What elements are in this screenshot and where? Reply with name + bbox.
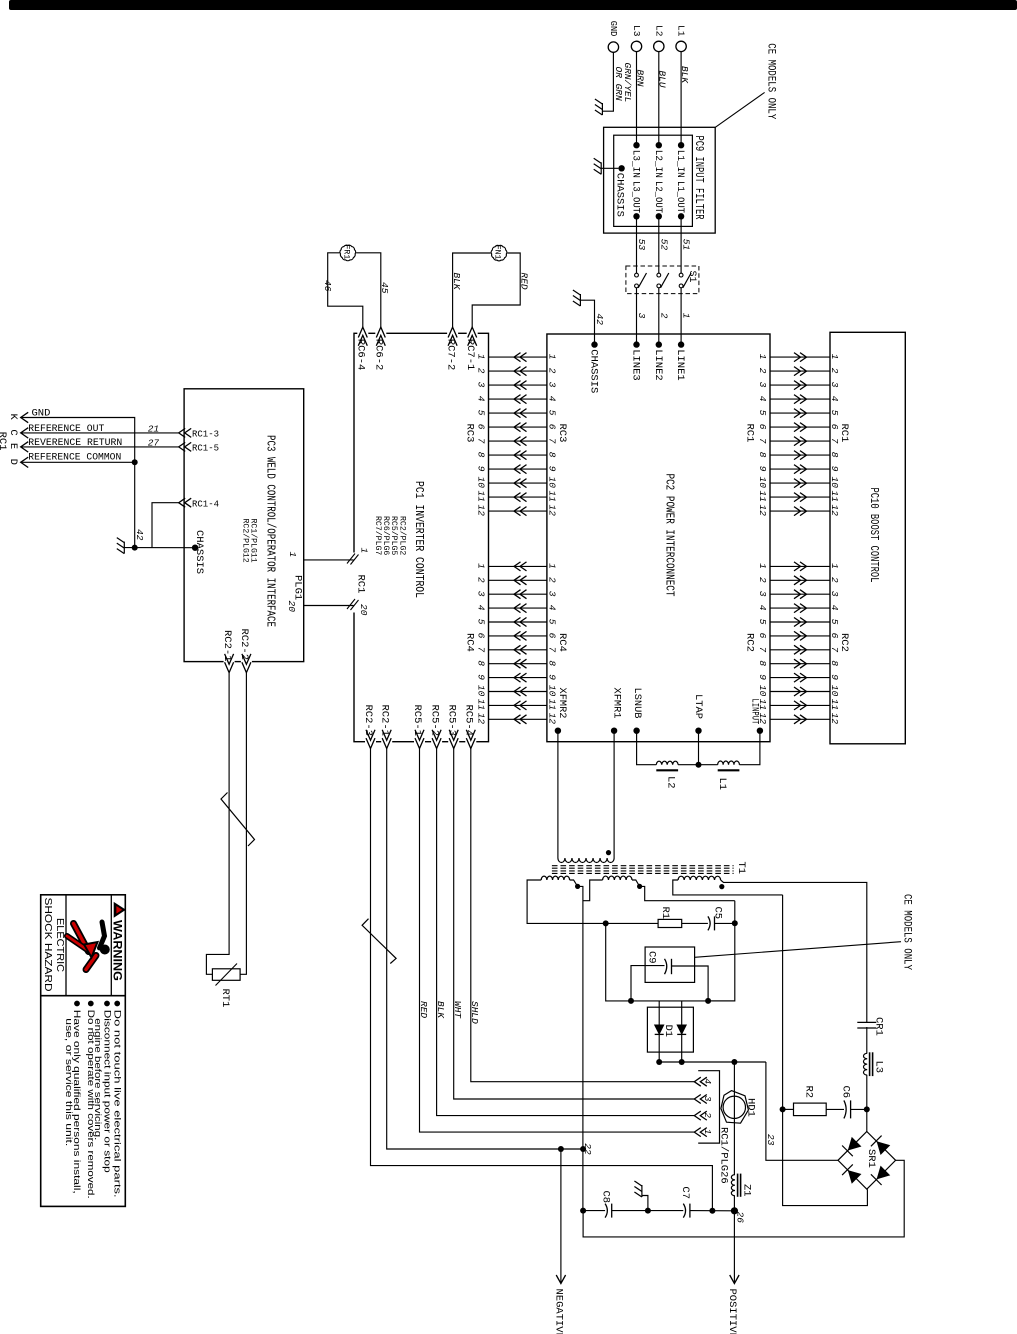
ground (PC3 chassis) (123, 542, 125, 554)
svg-text:6: 6 (757, 424, 768, 430)
connector RC6-2 chevron (376, 327, 385, 346)
wire RC4 pin 9 (PC1-PC2) (489, 677, 547, 679)
svg-text:Disconnect input power or stop: Disconnect input power or stop (102, 1010, 112, 1173)
pin LSNUB (633, 728, 639, 734)
chevron RC3 pin 6 (514, 423, 527, 432)
connector RC2-1 chevron (PC1) (382, 730, 391, 749)
svg-text:9: 9 (476, 466, 487, 472)
T1 secondary winding 1 (541, 876, 569, 880)
svg-text:10: 10 (476, 477, 487, 489)
warning triangle icon (114, 903, 125, 917)
PC10 BOOST CONTROL box (830, 332, 905, 744)
switch S1 dashed box (626, 266, 699, 294)
svg-text:C5: C5 (712, 907, 724, 920)
chevron RC1 pin 12 (794, 507, 807, 516)
wire RC3 pin 7 (PC1-PC2) (489, 440, 547, 442)
PC3 WELD CONTROL/OPERATOR INTERFACE box (184, 389, 304, 662)
inductor L1 (718, 761, 740, 765)
arrow (RC1 pin) (21, 457, 29, 467)
svg-text:3: 3 (829, 382, 840, 388)
svg-text:3: 3 (757, 382, 768, 388)
junction (HD1 tap) (731, 1059, 737, 1065)
svg-text:D1: D1 (662, 1025, 674, 1038)
svg-text:11: 11 (829, 491, 840, 502)
svg-text:XFMR1: XFMR1 (611, 688, 623, 719)
svg-text:5: 5 (476, 619, 487, 625)
junction (C7/RC2-3) (709, 1208, 715, 1214)
svg-text:7: 7 (757, 647, 768, 653)
wire R1 to C5 (682, 922, 708, 924)
svg-text:RC6-4: RC6-4 (355, 339, 367, 371)
chevron RC2 pin 6 (794, 631, 807, 640)
chevron RC1 pin 4 (794, 395, 807, 404)
svg-text:6: 6 (757, 633, 768, 639)
svg-text:RC1-4: RC1-4 (192, 498, 219, 509)
wire L3 to C6 node (866, 1075, 868, 1109)
pin LINPUT (757, 728, 763, 734)
svg-text:1: 1 (757, 563, 768, 569)
svg-text:10: 10 (546, 685, 557, 697)
resistor R1 (658, 919, 682, 927)
svg-text:CHASSIS: CHASSIS (588, 349, 600, 393)
wire C6 right lead (851, 1108, 867, 1110)
chevron RC2 pin 9 (794, 673, 807, 682)
wire RC1 pin 7 (PC2-PC10) (770, 440, 830, 442)
black header bar (page edge) (9, 0, 1017, 10)
ground (PC9 chassis) (600, 162, 602, 174)
svg-text:9: 9 (829, 466, 840, 472)
wire RC4 pin 7 (PC1-PC2) (489, 649, 547, 651)
polarity dot secondary 1 (575, 884, 580, 889)
chevron RC2 pin 10 (794, 687, 807, 696)
connector RC2-1 chevron (PC3) (225, 654, 234, 673)
svg-text:2: 2 (757, 577, 768, 583)
svg-text:8: 8 (546, 452, 557, 458)
wire net 23 to SR1 left (766, 1062, 838, 1160)
svg-text:RC3: RC3 (463, 424, 475, 443)
wire LTAP down (698, 731, 700, 765)
svg-text:10: 10 (476, 685, 487, 697)
wire FN1 RED to RC7-1 (472, 253, 520, 327)
terminal L3 (631, 41, 641, 51)
svg-text:3: 3 (702, 1096, 713, 1102)
wire RC1 pin 8 (PC2-PC10) (770, 454, 830, 456)
chevron RC1 pin 7 (794, 437, 807, 446)
svg-text:Do not touch live electrical p: Do not touch live electrical parts. (112, 1010, 122, 1198)
S1 contact pair and blade (657, 273, 661, 277)
svg-text:C: C (7, 429, 19, 435)
wire PC9 out 52 to S1 (658, 216, 660, 273)
svg-text:4: 4 (757, 605, 768, 611)
svg-text:PC1 INVERTER CONTROL: PC1 INVERTER CONTROL (412, 481, 426, 598)
wire ground to PC9 chassis pin (601, 167, 618, 169)
wire RC3 pin 6 (PC1-PC2) (489, 426, 547, 428)
svg-text:RC1/PLG11: RC1/PLG11 (249, 519, 259, 563)
wire RC1 pin 6 (PC2-PC10) (770, 426, 830, 428)
svg-text:11: 11 (546, 699, 557, 710)
connector RC7-2 chevron (448, 327, 457, 346)
wire RC4 pin 8 (PC1-PC2) (489, 663, 547, 665)
T1 secondary winding 2 (603, 876, 632, 880)
chevron RC4 pin 12 (514, 715, 527, 724)
wire RC1 pin 2 (PC2-PC10) (770, 370, 830, 372)
svg-text:use, or service this unit.: use, or service this unit. (64, 1018, 74, 1146)
connector RC7-1 chevron (468, 327, 477, 346)
svg-text:RC3: RC3 (556, 424, 568, 443)
svg-text:3: 3 (546, 591, 557, 597)
wire RC3 pin 12 (PC1-PC2) (489, 510, 547, 512)
chevron RC1 pin 5 (794, 409, 807, 418)
wire positive drop (733, 1211, 735, 1283)
warning bullet 2 (104, 1001, 110, 1007)
svg-text:2: 2 (476, 368, 487, 374)
svg-text:3: 3 (636, 313, 647, 319)
svg-text:3: 3 (757, 591, 768, 597)
svg-text:RC1: RC1 (743, 424, 755, 443)
chevron RC4 pin 2 (514, 576, 527, 585)
wire C6 to R2 (826, 1108, 844, 1110)
polarity dot secondary 3 (719, 884, 724, 889)
chevron HD1 pin 3 (694, 1095, 707, 1104)
svg-text:12: 12 (829, 505, 840, 517)
svg-text:10: 10 (757, 685, 768, 697)
cable break mark (RT1 pair) (221, 793, 255, 847)
gap in PC3 edge at RC2-1 (224, 660, 235, 663)
svg-text:9: 9 (757, 466, 768, 472)
svg-text:10: 10 (829, 477, 840, 489)
connector RC1-4 chevron (179, 498, 192, 507)
svg-text:CE MODELS ONLY: CE MODELS ONLY (900, 894, 912, 970)
wire RC3 pin 4 (PC1-PC2) (489, 398, 547, 400)
svg-text:RC4: RC4 (463, 633, 475, 652)
wire rail drop to C9 rail (606, 923, 735, 1001)
wire secondary1 left to snubber rail (527, 880, 606, 923)
resistor R2 (794, 1103, 827, 1116)
chevron RC4 pin 3 (514, 590, 527, 599)
svg-text:12: 12 (829, 713, 840, 725)
pin LINE3 (633, 341, 639, 347)
wire PC9 out 53 to S1 (636, 216, 638, 273)
junction (negative tap) (558, 1146, 564, 1152)
connector RC5-1 chevron (PC1) (415, 730, 424, 749)
svg-text:FN1: FN1 (493, 245, 502, 260)
wire RC4 pin 10 (PC1-PC2) (489, 691, 547, 693)
svg-text:L1_OUT: L1_OUT (674, 181, 685, 213)
svg-text:21: 21 (148, 423, 159, 434)
transformer T1 primary winding (558, 858, 614, 863)
wire RC1 pin 11 (PC2-PC10) (770, 496, 830, 498)
svg-text:2: 2 (757, 368, 768, 374)
wire D1 output rail (659, 1061, 766, 1063)
svg-text:CR1: CR1 (873, 1017, 885, 1036)
svg-text:5: 5 (757, 410, 768, 416)
PC9 inner box (614, 135, 693, 226)
svg-text:4: 4 (757, 396, 768, 402)
chevron RC4 pin 5 (514, 618, 527, 627)
svg-text:3: 3 (546, 382, 557, 388)
capacitor C8 (605, 1204, 607, 1218)
svg-text:CHASSIS: CHASSIS (193, 530, 205, 574)
junction (chassis node) (132, 545, 138, 551)
svg-text:8: 8 (757, 660, 768, 666)
junction (D1b out) (679, 1059, 685, 1065)
svg-text:1: 1 (702, 1129, 713, 1135)
connector RC6-4 chevron (358, 327, 367, 346)
warning label outer box (41, 895, 126, 1207)
chevron RC1 pin 11 (794, 493, 807, 502)
PC1 INVERTER CONTROL box (354, 333, 489, 741)
svg-text:PC9 INPUT FILTER: PC9 INPUT FILTER (692, 136, 705, 220)
svg-text:L2_IN: L2_IN (652, 150, 663, 178)
svg-text:BLU: BLU (657, 71, 668, 88)
wire L3 to PC9 (636, 52, 638, 146)
svg-text:2: 2 (702, 1112, 713, 1118)
svg-text:8: 8 (757, 452, 768, 458)
svg-text:R2: R2 (802, 1086, 814, 1099)
svg-text:C7: C7 (679, 1186, 691, 1199)
wire RC2 pin 3 (PC2-PC10) (770, 593, 830, 595)
pin L2_OUT (656, 213, 662, 219)
svg-text:1: 1 (757, 354, 768, 360)
wire GND to chassis node (21, 418, 135, 548)
diode SR1 upper-left (849, 1138, 861, 1150)
wire RC2-3 run (371, 749, 713, 1211)
svg-text:LSNUB: LSNUB (631, 688, 643, 719)
svg-text:12: 12 (476, 713, 487, 725)
svg-text:HD1: HD1 (744, 1098, 756, 1117)
wire RC4 pin 1 (PC1-PC2) (489, 565, 547, 567)
chevron RC4 pin 8 (514, 659, 527, 668)
wire RC1 pin 12 (PC2-PC10) (770, 510, 830, 512)
pin LINE2 (656, 341, 662, 347)
wire RC1 pin 1 (PC2-PC10) (770, 356, 830, 358)
svg-text:2: 2 (546, 577, 557, 583)
capacitor C6 (844, 1100, 846, 1118)
svg-text:XFMR2: XFMR2 (556, 688, 568, 719)
svg-text:LINPUT: LINPUT (748, 698, 760, 724)
wire RC2 pin 6 (PC2-PC10) (770, 635, 830, 637)
svg-text:C9: C9 (646, 951, 658, 964)
svg-text:C8: C8 (599, 1191, 611, 1204)
svg-text:8: 8 (829, 452, 840, 458)
svg-text:3: 3 (476, 382, 487, 388)
svg-text:OR GRN: OR GRN (613, 67, 624, 102)
PC2 POWER INTERCONNECT box (547, 334, 770, 742)
leader line CE MODELS ONLY to C9 box (695, 942, 901, 958)
gap in PC1 edge at RC1 connector (352, 553, 356, 613)
ground (PC2 chassis) with wire 42 (579, 294, 581, 306)
polarity dot T1 primary (606, 850, 611, 855)
svg-text:RC1: RC1 (0, 432, 8, 451)
polarity dot secondary 2 (637, 884, 642, 889)
svg-text:9: 9 (757, 674, 768, 680)
svg-text:RC4: RC4 (556, 633, 568, 652)
svg-text:RC2: RC2 (838, 633, 850, 652)
svg-text:11: 11 (829, 699, 840, 710)
svg-text:RC5-3: RC5-3 (445, 705, 457, 737)
svg-text:8: 8 (546, 660, 557, 666)
wire RC1 pin 5 (PC2-PC10) (770, 412, 830, 414)
svg-text:RC5-4: RC5-4 (463, 705, 475, 737)
wire C6 node to SR1 top (866, 1109, 868, 1131)
svg-text:RC1/PLG26: RC1/PLG26 (717, 1127, 729, 1184)
chevron RC3 pin 1 (514, 353, 527, 362)
svg-text:REFERENCE COMMON: REFERENCE COMMON (28, 451, 121, 463)
svg-text:51: 51 (681, 239, 692, 250)
chevron RC4 pin 6 (514, 631, 527, 640)
wire L1 to PC9 (680, 52, 682, 146)
chevron RC3 pin 12 (514, 507, 527, 516)
svg-text:5: 5 (829, 410, 840, 416)
chevron RC4 pin 9 (514, 673, 527, 682)
wire SR1 return rail (583, 1160, 904, 1237)
gap in PC1 edge at RC7-2 (447, 332, 458, 335)
chevron RC2 pin 5 (794, 618, 807, 627)
chevron RC1 pin 8 (794, 451, 807, 460)
gap in PC1 edge at RC5-1 (414, 740, 425, 743)
wire chassis node to PC3 CHASSIS pin (124, 547, 195, 549)
wire RC4 pin 4 (PC1-PC2) (489, 607, 547, 609)
junction (net 22 to winding bus) (580, 1146, 586, 1152)
wire GND to chassis ground (602, 52, 613, 111)
wire RC2 pin 10 (PC2-PC10) (770, 691, 830, 693)
svg-text:E: E (7, 443, 19, 449)
svg-text:20: 20 (358, 604, 369, 616)
svg-text:S1: S1 (686, 271, 697, 283)
junction (C9 right) (705, 998, 711, 1004)
svg-text:3: 3 (829, 591, 840, 597)
chevron RC4 pin 11 (514, 701, 527, 710)
svg-text:L2: L2 (653, 25, 664, 37)
chevron RC3 pin 11 (514, 493, 527, 502)
chevron RC3 pin 7 (514, 437, 527, 446)
pin LINE1 (678, 341, 684, 347)
warning bullet 3 (88, 1001, 94, 1007)
svg-text:L3_OUT: L3_OUT (630, 181, 641, 213)
chevron RC3 pin 3 (514, 381, 527, 390)
wire RC5-2 BLK (437, 749, 695, 1116)
junction (R2 tap) (780, 1106, 786, 1112)
svg-text:WHT: WHT (452, 1001, 463, 1019)
svg-text:22: 22 (582, 1143, 593, 1155)
diode D1b (681, 1001, 683, 1062)
wire RC3 pin 10 (PC1-PC2) (489, 482, 547, 484)
svg-text:7: 7 (546, 438, 557, 444)
svg-text:NEGATIVE: NEGATIVE (553, 1289, 565, 1334)
svg-text:6: 6 (476, 424, 487, 430)
svg-text:RC2-3: RC2-3 (362, 705, 374, 737)
wire secondary3 left to R2 drop (673, 880, 783, 895)
svg-text:LINE2: LINE2 (652, 349, 664, 381)
svg-text:1: 1 (546, 354, 557, 360)
connector RC5-2 chevron (PC1) (432, 730, 441, 749)
gap in PC1 edge at RC5-2 (431, 740, 442, 743)
svg-text:4: 4 (829, 396, 840, 402)
svg-text:5: 5 (757, 619, 768, 625)
warning label dividers (65, 895, 67, 996)
wire RC2 pin 4 (PC2-PC10) (770, 607, 830, 609)
svg-text:BLK: BLK (435, 1001, 446, 1019)
wire S1 to LINE3 (636, 288, 638, 345)
wire PC9 out 51 to S1 (680, 216, 682, 273)
chevron RC2 pin 3 (794, 590, 807, 599)
connector RC2-3 chevron (PC1) (366, 730, 375, 749)
enclosure box C9 (645, 947, 695, 982)
svg-text:LINE1: LINE1 (674, 349, 686, 381)
svg-text:7: 7 (476, 438, 487, 444)
chevron RC4 pin 4 (514, 604, 527, 613)
pin LTAP (695, 728, 701, 734)
terminal L1 (676, 41, 686, 51)
wire RC4 pin 3 (PC1-PC2) (489, 593, 547, 595)
chevron RC2 pin 8 (794, 659, 807, 668)
wire RC1 pin 4 (PC2-PC10) (770, 398, 830, 400)
wire ground node to C7 (648, 1210, 683, 1212)
wire XFMR2 to T1 primary (557, 731, 559, 858)
T1 secondary winding 3 (678, 876, 720, 880)
svg-text:2: 2 (829, 577, 840, 583)
arrow (RC1 pin) (21, 412, 29, 422)
junction (ref common / gnd) (132, 459, 138, 465)
svg-text:9: 9 (546, 466, 557, 472)
wire Z1 to positive node (733, 1196, 735, 1211)
svg-text:8: 8 (829, 660, 840, 666)
svg-text:LINE3: LINE3 (630, 349, 642, 381)
chevron RC1 pin 3 (794, 381, 807, 390)
svg-text:FR1: FR1 (341, 245, 350, 260)
svg-text:LTAP: LTAP (692, 694, 704, 719)
wire S1 to LINE1 (680, 288, 682, 345)
svg-text:RED: RED (418, 1001, 429, 1018)
pin XFMR1 (611, 728, 617, 734)
capacitor C5 (708, 916, 710, 930)
gap in PC1 edge at RC2-3 (365, 740, 376, 743)
wire RC2-1 run (net 22) (387, 749, 583, 1150)
svg-text:6: 6 (476, 633, 487, 639)
svg-text:10: 10 (757, 477, 768, 489)
capacitor C9 (665, 959, 667, 974)
junction (LTAP) (696, 762, 702, 768)
svg-text:1: 1 (476, 563, 487, 569)
chevron RC2 pin 2 (794, 576, 807, 585)
svg-text:Z1: Z1 (741, 1184, 753, 1197)
pin CHASSIS (PC9) (618, 165, 624, 171)
warning bullet 4 (74, 1001, 80, 1007)
cable break mark (RC2 pair) (362, 919, 396, 964)
chevron RC2 pin 11 (794, 701, 807, 710)
connector shell RC1/PLG26 (698, 1071, 719, 1143)
svg-text:ELECTRIC: ELECTRIC (54, 918, 65, 972)
svg-text:9: 9 (476, 674, 487, 680)
T1 core (552, 865, 734, 867)
wire FN1 BLK to RC7-2 (453, 253, 491, 327)
svg-text:3: 3 (476, 591, 487, 597)
wire RC2-2 to RT1 (240, 673, 246, 975)
junction (D1a out) (656, 1059, 662, 1065)
svg-text:RC1-5: RC1-5 (192, 443, 219, 454)
junction (C5 right) (732, 920, 738, 926)
svg-text:7: 7 (546, 647, 557, 653)
chevron RC4 pin 7 (514, 645, 527, 654)
wire RC1 pin 3 (PC2-PC10) (770, 384, 830, 386)
svg-text:RC1: RC1 (838, 424, 850, 443)
pin XFMR2 (555, 728, 561, 734)
wire RC2 pin 2 (PC2-PC10) (770, 579, 830, 581)
terminal GND (608, 42, 618, 52)
svg-text:L3: L3 (631, 25, 642, 37)
warning figure (electrocuted person) (67, 922, 110, 970)
chevron RC1 pin 10 (794, 479, 807, 488)
